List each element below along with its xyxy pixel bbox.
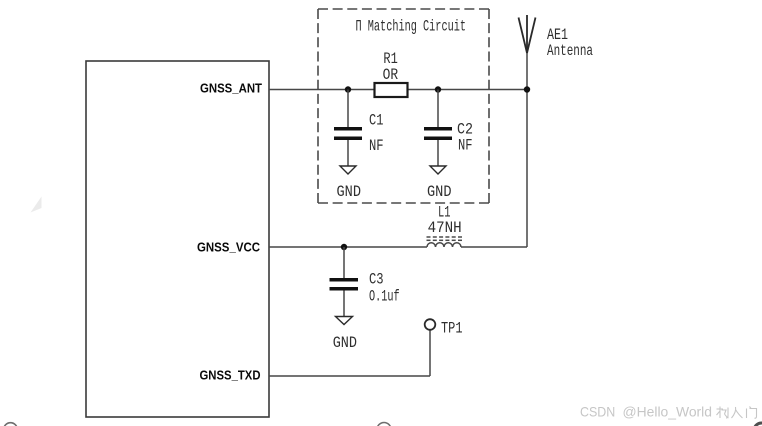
svg-text:GNSS_ANT: GNSS_ANT	[200, 81, 262, 96]
svg-text:GND: GND	[427, 183, 452, 201]
svg-text:NF: NF	[458, 137, 473, 155]
svg-text:GNSS_VCC: GNSS_VCC	[197, 240, 261, 255]
svg-text:GNSS_TXD: GNSS_TXD	[200, 368, 261, 383]
svg-text:TP1: TP1	[441, 320, 463, 338]
svg-text:NF: NF	[369, 137, 384, 155]
svg-text:47NH: 47NH	[428, 219, 462, 237]
svg-text:C1: C1	[369, 112, 383, 130]
svg-text:@Hello_World: @Hello_World	[623, 404, 713, 420]
svg-text:OR: OR	[383, 66, 399, 84]
svg-text:C3: C3	[369, 271, 384, 289]
svg-text:Antenna: Antenna	[547, 42, 593, 60]
svg-text:GND: GND	[333, 334, 357, 352]
svg-text:CSDN: CSDN	[580, 404, 615, 420]
svg-text:GND: GND	[337, 183, 362, 201]
svg-text:Π Matching Circuit: Π Matching Circuit	[356, 18, 467, 36]
svg-text:O.1uf: O.1uf	[369, 288, 400, 306]
